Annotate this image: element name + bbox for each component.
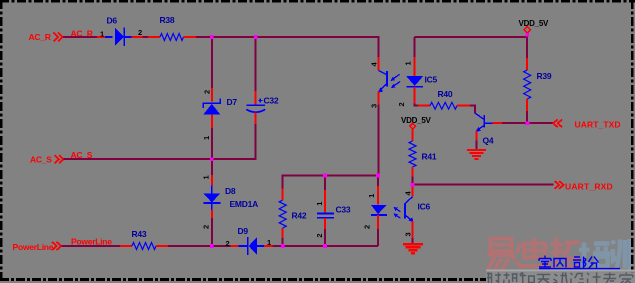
- capacitor C33: [317, 214, 334, 218]
- pin 1 of C33: [315, 190, 325, 213]
- dashed border left: [0, 0, 2, 281]
- pin 1 of R42: [282, 189, 284, 201]
- svg-text:R43: R43: [132, 229, 147, 239]
- svg-text:R42: R42: [292, 211, 307, 221]
- pin 1 of R39: [526, 58, 528, 70]
- pin 1 of IC5: [404, 57, 415, 76]
- pin 2 of R41: [412, 167, 414, 177]
- opto IC6 LED: [371, 205, 387, 215]
- junction D8 / PowerLine: [210, 244, 214, 248]
- svg-text:1: 1: [367, 194, 376, 198]
- dashed border bottom: [0, 278, 635, 281]
- svg-text:1: 1: [404, 62, 413, 66]
- label R40: [438, 89, 453, 99]
- resistor R42: [279, 200, 286, 228]
- resistor R41: [409, 141, 416, 167]
- pin 2 of R40: [457, 105, 470, 107]
- wire Q4 to UART_TXD: [502, 122, 553, 124]
- net label AC_S: [71, 150, 93, 160]
- svg-text:2: 2: [226, 239, 230, 248]
- svg-text:2: 2: [397, 103, 406, 107]
- watermark small text row: [487, 273, 633, 283]
- resistor R40: [430, 102, 457, 109]
- wire C32 column upper: [255, 37, 257, 91]
- dashed border top: [0, 0, 635, 2]
- label R41: [422, 152, 437, 162]
- pin 2 of R42: [282, 228, 284, 238]
- svg-text:UART_RXD: UART_RXD: [565, 182, 613, 192]
- wire D8 to PowerLine rail: [211, 218, 213, 246]
- svg-text:UART_TXD: UART_TXD: [575, 120, 621, 130]
- port AC_R: [29, 32, 63, 42]
- junction AC_S / D7 D8: [210, 157, 214, 161]
- wire IC6 LED to bottom rail: [377, 229, 379, 246]
- svg-text:VDD_5V: VDD_5V: [401, 116, 432, 125]
- opto IC5 LED: [406, 76, 423, 87]
- wire AC_R to D6: [63, 36, 97, 38]
- pin 4 of IC5: [369, 57, 378, 71]
- label C32: [264, 96, 279, 106]
- wire IC6 LED top stub: [377, 176, 379, 186]
- wire AC_S to D8: [211, 159, 213, 175]
- port AC_S: [30, 154, 64, 164]
- wire IC5 LED to R40: [415, 104, 418, 106]
- value EMD1A: [230, 199, 259, 209]
- pin 1 of D7: [202, 115, 212, 141]
- pin 2 of R39: [526, 99, 528, 111]
- pin emitter of Q4: [476, 131, 478, 141]
- svg-text:3: 3: [404, 233, 413, 237]
- wire UART_RXD line: [413, 184, 554, 186]
- resistor R39: [524, 70, 531, 99]
- pin 1 of D8: [202, 175, 212, 186]
- watermark big text yidituo: [487, 238, 630, 271]
- port UART_TXD: [553, 119, 620, 129]
- pin 1 of R38: [148, 36, 160, 38]
- ground IC6: [403, 244, 423, 253]
- wire D6 to R38: [143, 36, 148, 38]
- svg-text:1: 1: [315, 202, 324, 206]
- wire IC5 phototransistor top stub: [378, 37, 380, 57]
- svg-text:VDD_5V: VDD_5V: [519, 19, 550, 28]
- label Q4: [483, 136, 494, 146]
- svg-text:D9: D9: [238, 226, 249, 236]
- junction R42 bottom: [281, 244, 285, 248]
- junction at C32 top node: [254, 35, 258, 39]
- resistor R38: [160, 34, 184, 41]
- svg-text:D8: D8: [225, 186, 236, 196]
- opto IC5 light arrows: [390, 74, 400, 88]
- svg-text:Q4: Q4: [483, 136, 494, 146]
- svg-text:3: 3: [369, 104, 378, 108]
- pin 2 of IC5: [397, 87, 415, 107]
- pin 2 of IC6: [363, 215, 379, 229]
- watermark divider band: [486, 270, 635, 283]
- wire C32 to AC_S line: [212, 124, 256, 159]
- wire R41 to RXD node: [412, 177, 414, 185]
- wire IC5 LED top stub: [414, 37, 416, 57]
- ground Q4: [467, 150, 486, 159]
- wire IC6 pin3 to ground: [412, 238, 414, 244]
- label IC6: [418, 202, 431, 212]
- junction C33 bottom: [323, 244, 327, 248]
- junction C33 top: [323, 174, 327, 178]
- label R43: [132, 229, 147, 239]
- wire R43 to D9: [168, 245, 231, 247]
- label C33: [336, 205, 351, 215]
- pin base of Q4: [493, 122, 502, 124]
- opto IC6 phototransistor: [405, 197, 414, 223]
- svg-text:AC_S: AC_S: [30, 154, 52, 164]
- svg-text:AC_R: AC_R: [29, 32, 51, 42]
- svg-text:2: 2: [315, 234, 324, 238]
- label D9: [238, 226, 249, 236]
- region label indoor section: [539, 256, 620, 269]
- svg-text:R39: R39: [537, 71, 552, 81]
- zener diode D7: [203, 99, 220, 115]
- label D8: [225, 186, 236, 196]
- svg-text:2: 2: [202, 225, 211, 229]
- net label AC_R: [71, 29, 93, 39]
- net label PowerLine: [71, 237, 112, 247]
- wire R40 to Q4: [470, 106, 475, 114]
- pin 2 of D8: [202, 210, 212, 230]
- pin 1 of R40: [418, 105, 430, 107]
- wire D7 to AC_S node: [211, 128, 213, 159]
- pin 1 of D9: [264, 238, 273, 247]
- svg-text:C32: C32: [264, 96, 279, 106]
- svg-text:D7: D7: [227, 97, 238, 107]
- svg-text:2: 2: [138, 28, 142, 37]
- capacitor C32: [246, 99, 265, 113]
- opto IC5 phototransistor: [378, 71, 387, 93]
- svg-text:R41: R41: [422, 152, 437, 162]
- wire PowerLine to R43: [62, 245, 121, 247]
- pin 1 of IC6: [367, 186, 378, 205]
- dashed border right: [631, 0, 634, 281]
- wire AC_S: [64, 158, 256, 160]
- junction R39 / TXD: [526, 121, 530, 125]
- svg-text:C33: C33: [336, 205, 351, 215]
- wire C33 top stub: [324, 176, 326, 190]
- label R42: [292, 211, 307, 221]
- junction R41 / RXD / IC6: [411, 183, 415, 187]
- label IC5: [425, 75, 438, 85]
- pin 2 of R43: [156, 245, 168, 247]
- transistor Q4: [475, 113, 492, 132]
- junction at R38/D7 node: [210, 35, 214, 39]
- port PowerLine: [13, 242, 62, 252]
- wire R42 bottom stub: [282, 238, 284, 246]
- svg-text:1: 1: [202, 176, 211, 180]
- wire D9 to IC6 LED: [273, 245, 379, 247]
- wire Q4 emitter to ground: [476, 141, 478, 150]
- power VDD_5V middle: [401, 116, 432, 141]
- svg-text:PowerLine: PowerLine: [13, 242, 54, 252]
- label D7: [227, 97, 238, 107]
- svg-text:2: 2: [363, 225, 372, 229]
- svg-text:R40: R40: [438, 89, 453, 99]
- svg-text:EMD1A: EMD1A: [230, 199, 259, 209]
- pin 2 of D7: [203, 88, 212, 102]
- junction IC5/IC6 node: [376, 174, 380, 178]
- label R38: [160, 15, 175, 25]
- wire R39 to TXD line: [526, 111, 528, 123]
- pin 2 of C32: [255, 113, 257, 125]
- pin 1 of C32: [255, 91, 257, 105]
- power VDD_5V top: [519, 19, 550, 38]
- svg-text:IC6: IC6: [418, 202, 431, 212]
- junction at VDD_5V power port: [526, 33, 530, 36]
- diode D6: [105, 28, 132, 46]
- svg-text:D6: D6: [107, 16, 118, 26]
- pin 2 of C33: [315, 218, 325, 237]
- diode D8: [203, 186, 220, 210]
- svg-text:1: 1: [100, 30, 104, 39]
- label D6: [107, 16, 118, 26]
- svg-text:IC5: IC5: [425, 75, 438, 85]
- opto IC6 light arrows: [394, 207, 401, 218]
- wire top rail A to IC5: [196, 36, 380, 38]
- pin 3 of IC5: [369, 91, 378, 108]
- pin 1 of R43: [120, 245, 132, 247]
- diode D9: [239, 237, 265, 255]
- svg-text:R38: R38: [160, 15, 175, 25]
- wire D7 column upper: [211, 37, 213, 88]
- wire IC5 pin3 down to node: [378, 105, 380, 176]
- wire C33 bottom stub: [324, 229, 326, 246]
- svg-text:1: 1: [267, 238, 271, 247]
- pin 2 of D6: [132, 28, 143, 37]
- svg-text:1: 1: [202, 136, 211, 140]
- port UART_RXD: [555, 181, 613, 192]
- pin 1 of D6: [97, 30, 105, 39]
- pin 4 of IC6: [404, 185, 413, 197]
- resistor R43: [132, 243, 156, 250]
- pin 2 of R38: [184, 36, 197, 38]
- pin 2 of D9: [226, 239, 239, 248]
- label R39: [537, 71, 552, 81]
- pin 3 of IC6: [404, 221, 413, 238]
- wire top rail B: [415, 37, 528, 58]
- svg-text:2: 2: [203, 90, 212, 94]
- wire R42 top corner: [283, 176, 378, 189]
